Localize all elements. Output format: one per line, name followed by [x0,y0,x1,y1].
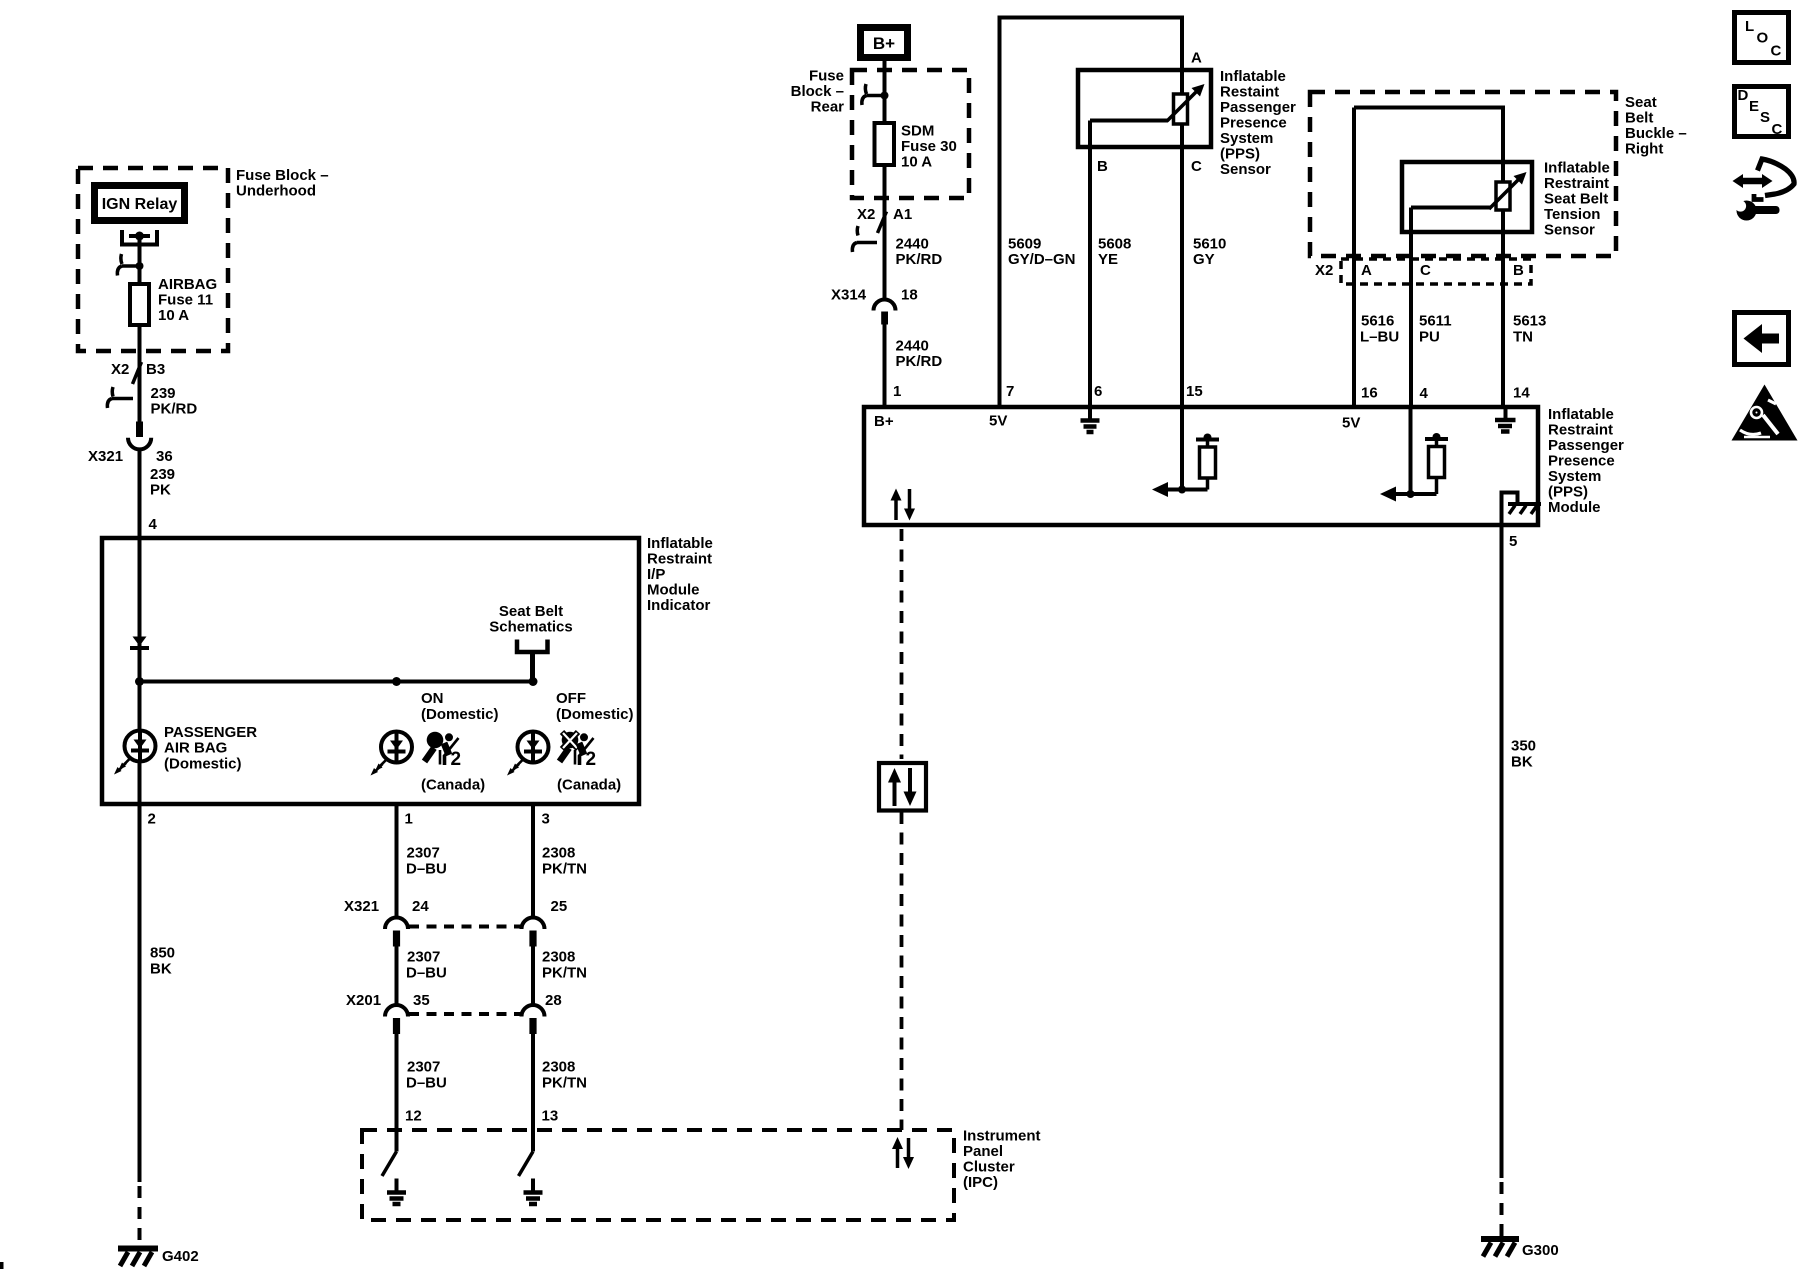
svg-text:X2: X2 [857,206,875,223]
bus wire [140,680,534,684]
svg-text:(Canada): (Canada) [421,777,485,794]
svg-text:Inflatable: Inflatable [1544,160,1610,177]
svg-text:Restraint: Restraint [647,551,712,568]
svg-text:Block –: Block – [791,83,844,100]
svg-text:GY/D–GN: GY/D–GN [1008,251,1076,268]
svg-text:Sensor: Sensor [1544,222,1595,239]
serial data box [879,763,926,811]
pullup pin 4 [1380,407,1448,502]
svg-text:1: 1 [893,383,901,400]
wire 850 BK [140,803,176,1248]
svg-text:Schematics: Schematics [489,619,572,636]
svg-text:System: System [1220,130,1273,147]
svg-text:Seat Belt: Seat Belt [1544,191,1608,208]
svg-text:Passenger: Passenger [1220,99,1296,116]
ground pin 6 [1081,407,1100,432]
LED off-domestic [507,690,634,794]
svg-text:AIR BAG: AIR BAG [164,740,227,757]
svg-text:Presence: Presence [1220,115,1287,132]
svg-text:(IPC): (IPC) [963,1174,998,1191]
svg-text:GY: GY [1193,251,1215,268]
svg-text:28: 28 [545,992,562,1009]
svg-text:Inflatable: Inflatable [1548,406,1614,423]
svg-text:C: C [1771,43,1782,60]
svg-text:ON: ON [421,690,444,707]
svg-text:15: 15 [1186,383,1203,400]
switch hook [117,254,143,276]
pps sensor box [1078,70,1211,147]
svg-text:Passenger: Passenger [1548,437,1624,454]
svg-text:PK/TN: PK/TN [542,1075,587,1092]
wire 2440 pk/rd [896,236,943,269]
svg-text:D: D [1738,87,1749,104]
svg-text:13: 13 [542,1108,559,1125]
wire 239 PK [140,449,176,538]
wire 350 BK [1502,527,1537,1238]
svg-text:350: 350 [1511,738,1536,755]
wire through sensor [1180,70,1184,405]
wire 5609 gy/d-gn [1006,236,1076,401]
connector X201 pins 35 28 [346,992,562,1034]
icon desc [1735,87,1789,139]
serial data arrows in IPC [892,1137,914,1169]
svg-text:L–BU: L–BU [1360,329,1399,346]
IGN Relay [95,186,185,221]
svg-text:2308: 2308 [542,949,575,966]
svg-text:B+: B+ [874,413,894,430]
svg-text:B: B [1097,158,1108,175]
svg-text:18: 18 [901,287,918,304]
label tension sensor [1544,160,1610,239]
seat belt schematics ref [489,603,572,682]
svg-text:(PPS): (PPS) [1548,484,1588,501]
svg-text:B: B [1513,262,1524,279]
svg-text:E: E [1749,98,1759,115]
ground pin 14 [1495,407,1516,432]
fuse block rear box [852,70,969,198]
svg-text:C: C [1191,158,1202,175]
svg-text:System: System [1548,468,1601,485]
svg-text:Cluster: Cluster [963,1159,1015,1176]
pps sensor loop wire [1000,18,1183,406]
tension sensor box [1402,162,1532,232]
IPC box [362,1130,954,1220]
svg-text:12: 12 [405,1108,422,1125]
icon child-seat warning triangle [1732,385,1798,441]
IP module indicator box [102,538,639,804]
wire A [1352,108,1356,406]
wire B down [1088,121,1092,406]
airbag icon off [560,732,597,770]
svg-text:6: 6 [1094,383,1102,400]
wire in module [138,540,142,803]
svg-text:S: S [1760,109,1770,126]
connector X314 pin 18 [831,287,918,325]
svg-text:Panel: Panel [963,1143,1003,1160]
svg-text:Instrument: Instrument [963,1128,1041,1145]
svg-text:14: 14 [1513,385,1530,402]
svg-text:5611: 5611 [1419,313,1452,330]
label seat belt buckle right [1625,94,1687,158]
svg-text:Underhood: Underhood [236,183,316,200]
svg-text:C: C [1772,121,1783,138]
wire through tension sensor [1501,162,1505,405]
svg-text:850: 850 [150,945,175,962]
svg-text:PASSENGER: PASSENGER [164,724,257,741]
svg-text:Fuse: Fuse [809,68,844,85]
connector X2 A1 [852,206,912,252]
svg-text:SDM: SDM [901,123,934,140]
svg-text:YE: YE [1098,251,1118,268]
svg-text:O: O [1757,30,1769,47]
label pps module [1548,406,1624,516]
chassis ground pin 5 internal [1502,493,1542,526]
svg-text:Restraint: Restraint [1544,175,1609,192]
svg-text:1: 1 [405,811,413,828]
switch to ground 13 [519,1130,543,1204]
svg-text:Rear: Rear [811,99,845,116]
connector X2 B3 [107,361,165,408]
svg-text:BK: BK [1511,754,1533,771]
wire 5613 tn [1513,313,1546,402]
svg-text:B+: B+ [873,34,895,53]
svg-text:Module: Module [647,582,700,599]
pullup pin 15 [1152,407,1219,497]
svg-text:Seat Belt: Seat Belt [499,603,563,620]
svg-text:2308: 2308 [542,845,575,862]
svg-text:239: 239 [151,385,176,402]
diode [130,637,149,649]
svg-text:2307: 2307 [407,845,440,862]
serial data line lower [900,812,904,1130]
svg-text:X2: X2 [111,361,129,378]
svg-text:16: 16 [1361,385,1378,402]
svg-text:35: 35 [413,992,430,1009]
svg-text:Seat: Seat [1625,94,1657,111]
svg-text:BK: BK [150,961,172,978]
svg-text:(Domestic): (Domestic) [421,706,499,723]
svg-text:25: 25 [551,898,568,915]
svg-text:X321: X321 [344,898,379,915]
B+ feed box [861,28,908,58]
svg-text:OFF: OFF [556,690,586,707]
svg-text:PK/RD: PK/RD [151,401,198,418]
serial data arrows in module [891,489,916,521]
LED on-domestic [371,690,499,794]
svg-text:5610: 5610 [1193,236,1226,253]
connector X2 row A C B [1315,259,1531,284]
svg-text:PU: PU [1419,329,1440,346]
sensor horizontal wire [1090,119,1168,123]
svg-text:Fuse 30: Fuse 30 [901,138,957,155]
label pps sensor [1220,68,1296,178]
svg-text:Belt: Belt [1625,110,1653,127]
svg-text:5V: 5V [989,413,1007,430]
svg-text:L: L [1745,18,1754,35]
svg-text:10 A: 10 A [901,154,932,171]
svg-text:4: 4 [149,516,158,533]
wire 5616 l-bu [1360,313,1399,402]
airbag icon on [425,732,462,770]
svg-text:Fuse Block –: Fuse Block – [236,167,329,184]
icon connector-repair [1733,159,1795,221]
wire 5608 ye [1094,236,1131,401]
ground G402 [118,1248,199,1266]
svg-text:2440: 2440 [896,236,929,253]
svg-text:C: C [1420,262,1431,279]
label fuse block rear [791,68,845,116]
svg-text:PK: PK [150,482,171,499]
wire 2308 pk/tn seg1 [533,803,587,918]
wire 5611 pu [1419,313,1452,403]
svg-text:G300: G300 [1522,1242,1559,1259]
relay contact [122,230,157,245]
wire C down [1409,208,1413,406]
svg-text:36: 36 [156,448,173,465]
svg-text:TN: TN [1513,329,1533,346]
svg-text:D–BU: D–BU [406,861,447,878]
svg-text:A1: A1 [893,206,912,223]
label fuse block underhood [236,167,329,200]
serial data line upper [900,529,904,759]
svg-text:Inflatable: Inflatable [1220,68,1286,85]
svg-text:(Domestic): (Domestic) [556,706,634,723]
svg-text:Presence: Presence [1548,453,1615,470]
wire 2308 pk/tn seg3 [533,1034,587,1130]
wire 2440 pk/rd seg2 [885,325,943,406]
svg-text:D–BU: D–BU [406,1075,447,1092]
svg-text:7: 7 [1006,383,1014,400]
svg-text:5616: 5616 [1361,313,1394,330]
svg-text:5V: 5V [1342,415,1360,432]
svg-text:PK/RD: PK/RD [896,353,943,370]
wire 2307 d-bu seg3 [397,1034,447,1130]
node junctions [135,677,144,686]
pps module box [864,407,1538,525]
svg-text:X2: X2 [1315,262,1333,279]
svg-text:4: 4 [1420,385,1429,402]
icon back-arrow [1735,313,1789,365]
svg-text:5: 5 [1509,533,1517,550]
svg-text:2: 2 [586,749,597,770]
variable resistor pps [1167,84,1205,124]
svg-text:PK/RD: PK/RD [896,251,943,268]
svg-text:IGN Relay: IGN Relay [102,196,178,213]
svg-text:Sensor: Sensor [1220,161,1271,178]
wire 2307 d-bu seg2 [397,947,447,1006]
svg-text:2440: 2440 [896,338,929,355]
wire from B+ [883,61,887,123]
sensor horizontal wire [1411,206,1490,210]
svg-text:AIRBAG: AIRBAG [158,276,217,293]
svg-text:A: A [1361,262,1372,279]
svg-text:Restaint: Restaint [1220,84,1279,101]
svg-text:24: 24 [412,898,429,915]
page edge mark [0,1262,4,1269]
icon loc [1735,13,1789,63]
svg-text:5613: 5613 [1513,313,1546,330]
svg-text:(PPS): (PPS) [1220,146,1260,163]
ground G300 [1481,1239,1559,1259]
svg-text:B3: B3 [146,361,165,378]
svg-text:5608: 5608 [1098,236,1131,253]
svg-text:2307: 2307 [407,1059,440,1076]
svg-text:239: 239 [150,466,175,483]
seat belt buckle right box [1310,92,1616,256]
wire 5610 gy [1186,236,1226,401]
svg-text:Tension: Tension [1544,206,1600,223]
svg-text:5609: 5609 [1008,236,1041,253]
wire [138,325,142,422]
svg-text:Restraint: Restraint [1548,422,1613,439]
svg-text:2: 2 [148,811,156,828]
svg-text:2308: 2308 [542,1059,575,1076]
wire 2308 pk/tn seg2 [533,947,587,1006]
buckle loop wire [1354,108,1503,163]
wire 2307 d-bu seg1 [397,803,447,918]
svg-text:(Domestic): (Domestic) [164,756,242,773]
switch to ground 12 [382,1130,406,1204]
svg-text:10 A: 10 A [158,307,189,324]
svg-text:2307: 2307 [407,949,440,966]
svg-text:Module: Module [1548,499,1601,516]
relay hook in fuse block rear [862,84,889,105]
svg-text:X321: X321 [88,448,123,465]
wire [138,236,142,284]
variable resistor tension [1489,172,1527,210]
svg-text:I/P: I/P [647,566,665,583]
connector X321 pin 36 [88,422,173,466]
fuse SDM Fuse 30 [875,123,957,171]
svg-text:Right: Right [1625,141,1663,158]
svg-text:X314: X314 [831,287,867,304]
svg-text:A: A [1191,50,1202,67]
svg-text:D–BU: D–BU [406,965,447,982]
svg-text:Indicator: Indicator [647,597,711,614]
LED passenger air bag [114,724,257,775]
svg-text:Fuse 11: Fuse 11 [158,292,213,309]
connector X321 pins 24 25 [344,898,567,947]
svg-text:PK/TN: PK/TN [542,861,587,878]
svg-text:G402: G402 [162,1248,199,1265]
wire 239 PK/RD [151,385,198,418]
svg-text:(Canada): (Canada) [557,777,621,794]
svg-text:2: 2 [451,749,462,770]
fuse AIRBAG Fuse 11 [130,276,217,325]
svg-text:Buckle –: Buckle – [1625,125,1687,142]
svg-text:3: 3 [542,811,550,828]
fuse block underhood box [78,168,228,351]
svg-text:X201: X201 [346,992,381,1009]
svg-text:PK/TN: PK/TN [542,965,587,982]
wire [883,165,887,299]
svg-text:Inflatable: Inflatable [647,535,713,552]
